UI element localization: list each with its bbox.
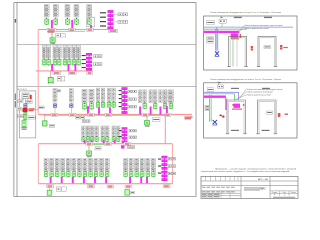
stem B12 (bottom row) [106, 170, 108, 173]
stem 4b (band2) [78, 58, 80, 59]
bus cable label P3 (band3) [105, 113, 112, 116]
breaker P2b (band3 row1) [101, 101, 104, 107]
breaker 3a (band2) [63, 59, 66, 66]
stem 4a (band2) [73, 58, 75, 59]
cabinet caption Уст.1 (panel1) [234, 17, 242, 18]
circuit label column P3b (band3 row1) [112, 88, 116, 101]
wire stem gr.5 (band1) [88, 17, 90, 19]
stem P3a (band3 row1) [108, 101, 110, 104]
sheet frame left line [16, 3, 18, 197]
org name dashes [273, 196, 295, 199]
signature dashes [202, 194, 220, 197]
circuit label column M2a (mid row) [90, 126, 94, 136]
below-bus label a (band3) [75, 116, 80, 119]
stem B11 (bottom row) [101, 170, 103, 173]
socket pair 1 (band1) [118, 13, 128, 16]
breaker P1b (band3 row1) [90, 103, 94, 110]
breaker 4b (band2) [77, 59, 80, 66]
svg-text:ЩИТ ЩСУ: ЩИТ ЩСУ [17, 89, 27, 91]
plan panel 2 frame [204, 83, 297, 138]
breaker M1b (mid row) [86, 136, 89, 142]
ring right leg [172, 144, 174, 184]
red indicator dot (panel2) [220, 115, 225, 118]
drop label P6 (band3) [165, 113, 172, 116]
circuit label column 4a (band2) [72, 45, 76, 58]
breaker 2b (band2) [58, 59, 61, 66]
circuit label column M2b (mid row) [95, 126, 99, 136]
magenta drop M2 (mid row) [91, 140, 93, 144]
separator band1/band2 [17, 44, 196, 46]
circuit label column P4b (band3 row1) [143, 90, 146, 103]
title block vertical main 2 [269, 176, 271, 198]
breaker M3a (mid row) [101, 136, 104, 142]
tiny label below green box 2 [131, 191, 135, 194]
band1 bus ГРЩ1 [38, 29, 117, 31]
stem 3a (band2) [64, 58, 66, 59]
circuit label column B3 (bottom row) [55, 159, 59, 171]
stub to socket pair 1 (band1) [115, 13, 117, 15]
bus cable label S2 (band3) [69, 113, 76, 116]
wire stem gr.3 (band1) [66, 17, 68, 19]
cabinet caption Уст.1 (panel2) [231, 88, 239, 89]
green stem to switch (band1) [51, 33, 53, 38]
meter boxes (band2) [57, 76, 65, 81]
circuit label column P2b (band3 row1) [101, 88, 105, 101]
circuit label column B8 (bottom row) [83, 159, 87, 171]
circuit label column M3a (mid row) [101, 126, 105, 136]
lamp cross symbol (panel2) [213, 120, 218, 125]
circuit label column B4 (bottom row) [61, 159, 65, 171]
stem M3b (mid row) [106, 135, 108, 138]
stem M1a (mid row) [82, 135, 84, 138]
magenta drop P3 (band3 row1) [109, 108, 111, 115]
band3 main bus [38, 114, 192, 116]
red device at cab2 right (panel1) [280, 45, 288, 50]
red input bar [30, 95, 32, 99]
breaker P4 (band3 row1) [143, 103, 146, 110]
device S2 (band3 row1) [70, 104, 73, 107]
green box 1 below bottom bus [47, 188, 52, 195]
circuit label column B5 (bottom row) [66, 159, 70, 171]
sub-panel bottom text [21, 127, 27, 129]
magenta drop B6 (bottom row) [105, 177, 107, 184]
stem B2 (bottom row) [51, 170, 53, 173]
mid bus cable label 3 (mid row) [124, 142, 131, 145]
cabinet Уст.2 (panel1) [257, 36, 277, 66]
blue cable run (panel2) [204, 92, 239, 100]
breaker B7 (bottom row) [78, 171, 82, 178]
socket pair below bus (band3) [82, 120, 90, 123]
stem P2a (band3 row1) [97, 101, 99, 104]
title block row line 1 [201, 180, 298, 182]
sub-panel internal pink wire [24, 112, 26, 120]
red stem to green box (mid bus) [88, 145, 90, 151]
stem B4 (bottom row) [62, 170, 64, 173]
wire stem gr.4 (band1) [75, 17, 77, 19]
stem M2a (mid row) [91, 135, 93, 138]
green vertical drop 2 (panel1) [217, 29, 219, 50]
chain cable label (band2) [87, 71, 93, 74]
circuit label column P6b (band3 row1) [163, 90, 166, 103]
magenta drop B1 (bottom row) [50, 177, 52, 184]
magenta drop P4 (band3 row1) [139, 107, 141, 115]
stem 2b (band2) [58, 58, 60, 59]
stem P1a (band3 row1) [84, 102, 86, 105]
breaker B5 (bottom row) [67, 171, 71, 178]
stem M4a (mid row) [113, 135, 115, 138]
device S1 (band3 row1) [53, 104, 56, 107]
green vertical drop 2 (panel2) [210, 95, 212, 122]
cable label БРУ1 (band1) [47, 28, 56, 31]
title block row line 2 [201, 185, 298, 187]
stem C4 (bottom row) [141, 170, 143, 173]
meter boxes (bottom bus) [56, 187, 66, 191]
switch box B1 (panel2) [207, 88, 213, 92]
breaker P5 (band3 row1) [154, 103, 157, 110]
cable label 3 (bottom bus) [107, 185, 114, 188]
socket pair 1 (band2) [94, 55, 102, 58]
breaker 1b (band2) [47, 59, 50, 66]
breaker C5 (bottom row) [146, 171, 150, 178]
green box 2 below bottom bus [125, 190, 130, 195]
stem M4b (mid row) [117, 135, 119, 138]
breaker B2 (bottom row) [50, 171, 54, 178]
breaker B1 (bottom row) [44, 171, 48, 178]
stem C2 (bottom row) [130, 170, 132, 173]
stage cells [272, 191, 296, 197]
breaker 2a (band2) [53, 59, 56, 66]
blue vertical drop (panel1) [216, 27, 218, 51]
breaker B4 (bottom row) [61, 171, 65, 178]
label box v4 (sub-panel) [28, 116, 35, 119]
surge device (sub-panel) [24, 104, 27, 107]
chain terminal labels (bottom row) [158, 159, 161, 174]
magenta drop B3 (bottom row) [72, 177, 74, 184]
red device at cab1 right (panel1) [251, 46, 253, 51]
enclosure box around QF5 (band1) [86, 18, 94, 27]
socket pair 3 (band3 row1) [128, 106, 136, 108]
cabinet Уст.1 (panel2) [226, 100, 247, 134]
incoming utility sub-panel box [20, 91, 36, 138]
circuit label column M4a (mid row) [112, 126, 116, 136]
red stem to green box (band3) [146, 116, 148, 120]
green box under bus (band3 right) [145, 121, 150, 127]
circuit label column P6a (band3 row1) [159, 90, 162, 103]
magenta cable drop 2 (band2) [67, 64, 69, 71]
circuit label column C4 (bottom row) [140, 159, 144, 171]
blue cable run (panel1) [204, 26, 293, 28]
breaker B3 (bottom row) [55, 171, 59, 178]
circuit label column M3b (mid row) [106, 126, 110, 136]
chain cable label (band1) [109, 30, 118, 33]
circuit label column C2 (bottom row) [129, 159, 133, 171]
stem P5 (band3 row1) [154, 102, 156, 105]
stem M3a (mid row) [102, 135, 104, 138]
magenta drop B2 (bottom row) [61, 177, 63, 184]
breaker C1 (bottom row) [124, 171, 128, 178]
stem P2b (band3 row1) [102, 101, 104, 104]
green vertical drop 1 (panel1) [215, 29, 217, 50]
chain terminal labels (band1) [100, 12, 106, 26]
svg-text:Схема размещения оборудования: Схема размещения оборудования на плане 1… [210, 12, 282, 14]
title block frame [201, 176, 298, 198]
sub-panel output wire to bus [28, 109, 39, 111]
separator band2/band3 [17, 86, 196, 88]
circuit label column M1a (mid row) [82, 126, 86, 136]
green wire inside cabinet (panel1) [232, 39, 234, 67]
breaker M3b (mid row) [106, 136, 109, 142]
bottom bus (ring bottom) [38, 183, 172, 185]
breaker QF1 (band1) [45, 18, 49, 25]
margin column stamp marks [15, 19, 16, 108]
stem S2b (band3 row1) [70, 107, 72, 114]
stem S2 (band3 row1) [70, 102, 72, 104]
band3 title box [55, 90, 61, 92]
circuit label column M4b (mid row) [117, 126, 121, 136]
circuit label column 1b (band2) [47, 45, 51, 58]
stem C3 (bottom row) [136, 170, 138, 173]
chain terminal labels (mid row) [119, 130, 122, 137]
socket pair 2 (mid row) [129, 136, 136, 138]
breaker C4 (bottom row) [141, 171, 145, 178]
stem 3b (band2) [68, 58, 70, 59]
below-bus label b (band3) [80, 116, 85, 119]
label inside cab2 (panel2) [267, 111, 273, 114]
green vertical drop 1 (panel2) [209, 95, 211, 122]
meter box (sub-panel) [18, 114, 24, 117]
mid bus cable label 2 (mid row) [105, 142, 112, 145]
room label box 2 (panel1) [207, 40, 214, 43]
stem C5 (bottom row) [147, 170, 149, 173]
revision grid header dashes [202, 187, 235, 193]
magenta cable drop 3 (band1) [90, 25, 92, 30]
sheet outer left border [13, 3, 15, 197]
stem M2b (mid row) [96, 135, 98, 138]
circuit label column P7 (band3 row1) [168, 90, 174, 103]
incoming switch green box (band1) [50, 38, 55, 44]
apparatus chain (band3 row1) [122, 88, 128, 114]
magenta drop M3 (mid row) [103, 140, 105, 144]
cable coil cluster (panel1) [231, 33, 241, 39]
stem B3 (bottom row) [56, 170, 58, 173]
green cable run (panel1) [204, 28, 247, 30]
circuit label column 2b (band2) [57, 45, 61, 58]
stem C1 (bottom row) [125, 170, 127, 173]
breaker B12 (bottom row) [105, 171, 109, 178]
cabinet caption Уст.2 (panel1) [264, 17, 272, 18]
note paragraph [201, 167, 297, 173]
magenta cable run (panel2) [204, 95, 226, 97]
cabinet caption Уст.2 (panel2) [262, 88, 270, 89]
stem C6 (bottom row) [152, 170, 154, 173]
PE green segment (band3 bus) [149, 114, 165, 116]
circuit label column 3a (band2) [63, 45, 67, 58]
socket pair 2 (band2) [94, 63, 102, 66]
socket pair below mid bus [128, 146, 135, 149]
cable label БРУ3 (band1) [87, 28, 94, 31]
green box below mid bus [87, 151, 92, 157]
circuit label column P1b (band3 row1) [89, 89, 94, 102]
circuit label column P5b (band3 row1) [154, 90, 157, 103]
sub-panel internal wire [24, 99, 26, 104]
svg-text:Кабель освещения прокладыв. ск: Кабель освещения прокладыв. скрыто в штр… [245, 25, 283, 27]
stem B7 (bottom row) [78, 170, 80, 173]
label inside cab2 (panel1) [264, 45, 271, 48]
breaker M2b (mid row) [95, 136, 98, 142]
apparatus chain (bottom row) [162, 156, 167, 181]
wire stem gr.2 (band1) [55, 17, 57, 19]
svg-text:Кабель сигнализации прокладыв.: Кабель сигнализации прокладыв. скрыто [247, 89, 283, 91]
magenta drop P5 (band3 row1) [150, 107, 152, 115]
cable label 2 (bottom bus) [88, 185, 95, 188]
svg-text:Кабель рабочего освещения: Кабель рабочего освещения [247, 92, 273, 94]
breaker 4a (band2) [73, 59, 76, 66]
room label box 2 (panel2) [205, 108, 210, 110]
green cable run (panel2) [204, 94, 235, 101]
magenta drop P7 (band3 row1) [166, 106, 168, 115]
stem P4 (band3 row1) [144, 102, 146, 105]
breaker P7 (band3 row1) [169, 103, 173, 110]
main switch red box (sub-panel) [23, 108, 28, 112]
room label box 1 (panel2) [205, 105, 210, 108]
project name small text [244, 188, 264, 191]
circuit label column B2 (bottom row) [50, 159, 54, 171]
PE green segment (mid bus) [93, 144, 105, 146]
breaker QF2 (band1) [54, 18, 58, 25]
stem 1a (band2) [43, 58, 45, 59]
leader note rows (panel1) [236, 25, 283, 32]
breaker QF5 (band1) [87, 18, 91, 25]
circuit label column gr.5 (band1) [87, 5, 92, 17]
bus cable label P1 (band3) [88, 113, 95, 116]
breaker 3b (band2) [68, 59, 71, 66]
stem B6 (bottom row) [73, 170, 75, 173]
magenta drop C3 (bottom row) [146, 177, 148, 184]
title block row line 4 (left) [201, 192, 241, 194]
breaker B9 (bottom row) [89, 171, 93, 178]
breaker B8 (bottom row) [83, 171, 87, 178]
circuit label column P1a (band3 row1) [82, 89, 87, 102]
circuit label column gr.2 (band1) [53, 5, 58, 17]
bus cable label 1 (band2) [53, 71, 61, 74]
label box v1 (sub-panel) [18, 100, 23, 103]
plan panel 1 frame [204, 16, 297, 70]
stem B5 (bottom row) [67, 170, 69, 173]
stem S1b (band3 row1) [54, 107, 56, 114]
circuit label column B6 (bottom row) [72, 159, 76, 171]
svg-text:Кабель розеточных сетей: Кабель розеточных сетей [245, 27, 269, 30]
circuit label column C5 (bottom row) [146, 159, 150, 171]
circuit label column B9 (bottom row) [88, 159, 92, 171]
circuit label column 2a (band2) [53, 45, 57, 58]
breaker P2a (band3 row1) [96, 101, 99, 107]
switch box A1 (panel1) [207, 20, 215, 24]
breaker B6 (bottom row) [72, 171, 76, 178]
breaker B11 (bottom row) [100, 171, 104, 178]
below-bus left load (band3) [43, 115, 47, 127]
breaker C6 (bottom row) [152, 171, 156, 178]
circuit label column P3a (band3 row1) [107, 88, 111, 101]
magenta drop P2 (band3 row1) [98, 108, 100, 115]
magenta drop B4 (bottom row) [83, 177, 85, 184]
breaker P6 (band3 row1) [163, 103, 166, 110]
breaker M4a (mid row) [112, 136, 115, 142]
circuit label column gr.1 (band1) [44, 5, 49, 17]
stem 2a (band2) [54, 58, 56, 59]
svg-text:Схема размещения оборудования: Схема размещения оборудования на плане 1… [210, 79, 281, 81]
circuit label column S1 (band3 row1) [53, 89, 57, 102]
red text beside switch [29, 108, 35, 111]
labels inside cabinets (panel2) [231, 130, 270, 131]
breaker B10 (bottom row) [94, 171, 98, 178]
PE green segment on bottom bus [80, 183, 92, 185]
incoming green apparatus (band2) [48, 71, 53, 84]
cabinet Уст.1 (panel1) [227, 36, 247, 66]
stem P3b (band3 row1) [113, 101, 115, 104]
magenta cable drop 1 (band2) [51, 64, 53, 71]
feeder drop bus3 to mid bus [164, 115, 166, 144]
title block row line 5 (left) [201, 195, 241, 197]
switch box A2 with flag (panel1) [219, 17, 226, 24]
cable label 1 (bottom bus) [47, 185, 54, 188]
left load label box (band3) [49, 124, 55, 127]
violet vertical drop (panel2) [225, 98, 227, 110]
circuit label column B1 (bottom row) [44, 159, 48, 171]
wire stem gr.1 (band1) [46, 17, 48, 19]
circuit label column B10 (bottom row) [94, 159, 98, 171]
cable label 4 (bottom bus) [125, 185, 132, 188]
room label box 1 (panel1) [207, 37, 214, 40]
chain terminal labels (band3 row1) [119, 90, 122, 107]
bus cable label S1 (band3) [51, 113, 58, 116]
PE green conductor (band1) [56, 30, 85, 32]
cable coil cluster (panel2) [232, 104, 244, 110]
main riser wire [37, 30, 39, 115]
magenta cable drop 3 (band2) [74, 64, 76, 71]
magenta cable run (panel1) [204, 31, 240, 33]
svg-text:Лист: Лист [283, 192, 287, 194]
PE green conductor (band3 bus) [44, 114, 165, 116]
circuit label column 4b (band2) [77, 45, 81, 58]
stem P1b (band3 row1) [91, 102, 93, 105]
magenta drop B5 (bottom row) [94, 177, 96, 184]
stem S1 (band3 row1) [54, 102, 56, 104]
stem M1b (mid row) [87, 135, 89, 138]
sheet frame bottom line [14, 196, 196, 198]
breaker M4b (mid row) [117, 136, 120, 142]
svg-text:1: 1 [284, 195, 285, 197]
cabinet Уст.2 (panel2) [256, 100, 277, 134]
stem B8 (bottom row) [84, 170, 86, 173]
breaker QF3 (band1) [66, 18, 70, 25]
svg-text:Примечание — система выравн. п: Примечание — система выравн. потенциалов… [215, 167, 297, 170]
circuit label column gr.3 (band1) [65, 5, 70, 17]
outgoing breaker (sub-panel) [22, 119, 26, 127]
cable note text (band1) [48, 31, 55, 34]
stem B9 (bottom row) [90, 170, 92, 173]
title block vertical main 1 [240, 176, 242, 198]
revision grid verticals [206, 176, 238, 198]
circuit label column B12 (bottom row) [105, 159, 109, 171]
stem 1b (band2) [48, 58, 50, 59]
circuit label column B11 (bottom row) [100, 159, 104, 171]
svg-text:Кабель розеточных сетей: Кабель розеточных сетей [247, 93, 271, 96]
socket pair 1 (band3 row1) [128, 90, 136, 92]
apparatus chain (mid row) [122, 128, 127, 143]
socket pair 2 (band3 row1) [128, 98, 136, 100]
circuit label column C6 (bottom row) [151, 159, 155, 171]
stem B1 (bottom row) [45, 170, 47, 173]
